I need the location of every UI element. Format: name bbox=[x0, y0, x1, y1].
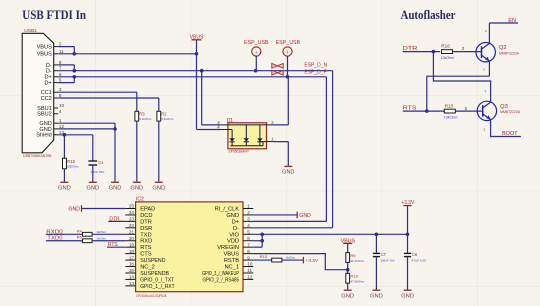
svg-text:10kOhm: 10kOhm bbox=[441, 56, 455, 60]
svg-text:RI_/_CLK: RI_/_CLK bbox=[215, 207, 240, 213]
svg-text:D-: D- bbox=[46, 69, 52, 75]
svg-text:Q3: Q3 bbox=[500, 104, 508, 110]
svg-text:USB7058ASB19B: USB7058ASB19B bbox=[23, 154, 52, 158]
svg-text:5.1kOhm: 5.1kOhm bbox=[139, 117, 152, 121]
svg-text:GND: GND bbox=[299, 213, 311, 219]
svg-text:ESP_D_P: ESP_D_P bbox=[304, 69, 327, 75]
svg-text:10: 10 bbox=[59, 103, 65, 108]
svg-text:19: 19 bbox=[129, 242, 135, 247]
svg-text:GND: GND bbox=[109, 186, 122, 192]
svg-text:Q2: Q2 bbox=[499, 45, 507, 51]
svg-text:TXD0: TXD0 bbox=[47, 236, 63, 242]
svg-text:RSTB: RSTB bbox=[224, 258, 239, 264]
svg-text:25: 25 bbox=[129, 204, 135, 209]
svg-text:1kOhm: 1kOhm bbox=[96, 237, 106, 241]
svg-text:100nF 16V: 100nF 16V bbox=[380, 259, 395, 263]
svg-text:GPIO_2_/_RS485: GPIO_2_/_RS485 bbox=[203, 277, 240, 283]
svg-text:CTS: CTS bbox=[140, 252, 152, 258]
svg-text:RTS: RTS bbox=[140, 245, 151, 251]
svg-text:VBUS: VBUS bbox=[190, 34, 204, 40]
svg-text:24: 24 bbox=[129, 210, 135, 215]
svg-text:R5: R5 bbox=[77, 235, 83, 240]
svg-text:6: 6 bbox=[59, 72, 62, 77]
svg-text:GND: GND bbox=[152, 186, 165, 192]
svg-text:R16: R16 bbox=[441, 43, 450, 48]
svg-text:GND: GND bbox=[86, 186, 99, 192]
svg-text:VBUS: VBUS bbox=[37, 52, 53, 58]
svg-text:VDD: VDD bbox=[227, 239, 239, 245]
svg-text:VBUS: VBUS bbox=[37, 45, 53, 51]
svg-text:7: 7 bbox=[247, 242, 250, 247]
svg-text:SP0503BAHT: SP0503BAHT bbox=[229, 149, 250, 153]
svg-text:SUSPENDB: SUSPENDB bbox=[140, 271, 169, 277]
svg-text:6: 6 bbox=[247, 236, 250, 241]
svg-text:1: 1 bbox=[59, 118, 62, 123]
svg-text:GPIO_1_/_RXT: GPIO_1_/_RXT bbox=[140, 284, 175, 290]
svg-text:15: 15 bbox=[129, 268, 135, 273]
svg-text:13: 13 bbox=[129, 281, 135, 286]
svg-text:4: 4 bbox=[247, 223, 250, 228]
svg-text:580Ohm: 580Ohm bbox=[67, 164, 79, 168]
svg-text:GPIO_0_/_TXT: GPIO_0_/_TXT bbox=[140, 277, 174, 283]
svg-text:+3.3V: +3.3V bbox=[305, 258, 318, 264]
svg-text:12: 12 bbox=[59, 124, 65, 129]
svg-text:+3.3V: +3.3V bbox=[401, 200, 415, 206]
svg-text:GND: GND bbox=[69, 207, 81, 213]
svg-text:11: 11 bbox=[59, 49, 64, 54]
svg-text:22: 22 bbox=[129, 223, 135, 228]
svg-text:9: 9 bbox=[247, 255, 250, 260]
svg-text:2: 2 bbox=[247, 210, 250, 215]
svg-text:5.1kOhm: 5.1kOhm bbox=[161, 117, 174, 121]
svg-text:EPAD: EPAD bbox=[140, 207, 155, 213]
svg-text:GND: GND bbox=[401, 293, 414, 299]
svg-text:D1: D1 bbox=[227, 118, 234, 124]
svg-text:R4: R4 bbox=[77, 228, 83, 233]
svg-text:RXD: RXD bbox=[140, 239, 152, 245]
svg-text:C1: C1 bbox=[98, 160, 104, 165]
svg-text:NC_2: NC_2 bbox=[140, 265, 155, 271]
svg-text:EN: EN bbox=[508, 18, 516, 24]
svg-text:D+: D+ bbox=[44, 81, 51, 87]
svg-text:CC2: CC2 bbox=[41, 96, 52, 102]
svg-text:C6: C6 bbox=[412, 252, 418, 257]
svg-text:R10: R10 bbox=[260, 254, 268, 259]
svg-text:21: 21 bbox=[129, 229, 135, 234]
svg-text:11: 11 bbox=[247, 268, 252, 273]
svg-text:23: 23 bbox=[129, 217, 135, 222]
svg-text:RXD0: RXD0 bbox=[46, 229, 63, 235]
svg-text:14: 14 bbox=[129, 275, 135, 280]
svg-text:D+: D+ bbox=[232, 219, 240, 225]
svg-text:MMBT2222A: MMBT2222A bbox=[500, 110, 521, 114]
svg-text:9: 9 bbox=[59, 93, 62, 98]
svg-text:Autoflasher: Autoflasher bbox=[401, 7, 456, 22]
svg-text:22.1kOhm: 22.1kOhm bbox=[350, 259, 364, 263]
svg-text:VBUS: VBUS bbox=[224, 252, 240, 258]
svg-text:R9: R9 bbox=[350, 253, 356, 258]
svg-text:10: 10 bbox=[247, 262, 253, 267]
svg-text:1kOhm: 1kOhm bbox=[286, 256, 296, 260]
svg-text:1kOhm: 1kOhm bbox=[96, 230, 106, 234]
svg-text:GND: GND bbox=[130, 186, 143, 192]
svg-text:1: 1 bbox=[286, 50, 288, 54]
svg-text:8: 8 bbox=[59, 60, 62, 65]
svg-text:R10: R10 bbox=[445, 103, 454, 108]
svg-text:VREGIN: VREGIN bbox=[217, 245, 239, 251]
svg-text:1: 1 bbox=[247, 204, 250, 209]
svg-text:GND: GND bbox=[370, 293, 383, 299]
svg-text:MMBT2222A: MMBT2222A bbox=[499, 51, 520, 55]
svg-text:SBU2: SBU2 bbox=[37, 112, 52, 118]
svg-text:SUSPEND: SUSPEND bbox=[140, 258, 165, 264]
svg-text:GND: GND bbox=[282, 170, 294, 176]
svg-text:DCD: DCD bbox=[140, 213, 152, 219]
svg-text:GND: GND bbox=[341, 293, 354, 299]
svg-text:Shield: Shield bbox=[36, 133, 52, 139]
svg-text:DTR: DTR bbox=[403, 46, 418, 52]
svg-text:R15: R15 bbox=[67, 159, 75, 164]
svg-text:3: 3 bbox=[59, 87, 62, 92]
svg-text:D-: D- bbox=[233, 226, 239, 232]
svg-text:ESP_USB: ESP_USB bbox=[244, 40, 269, 46]
svg-text:R13: R13 bbox=[350, 274, 358, 279]
svg-text:GND: GND bbox=[226, 213, 239, 219]
svg-text:4: 4 bbox=[59, 109, 62, 114]
svg-text:5: 5 bbox=[247, 229, 250, 234]
svg-text:CP2102N-A02-GQFN28: CP2102N-A02-GQFN28 bbox=[136, 294, 166, 298]
svg-text:IC2: IC2 bbox=[136, 197, 144, 203]
svg-text:7: 7 bbox=[59, 66, 62, 71]
svg-text:12: 12 bbox=[247, 275, 253, 280]
svg-text:47.5kOhm: 47.5kOhm bbox=[350, 280, 364, 284]
svg-text:ESP_D_N: ESP_D_N bbox=[304, 62, 327, 68]
svg-text:BOOT: BOOT bbox=[502, 131, 518, 137]
svg-text:20: 20 bbox=[129, 236, 135, 241]
svg-text:RTS: RTS bbox=[108, 242, 119, 248]
svg-text:DTR: DTR bbox=[109, 216, 120, 222]
svg-text:2: 2 bbox=[59, 42, 62, 47]
svg-text:17: 17 bbox=[129, 255, 135, 260]
svg-text:5: 5 bbox=[59, 78, 62, 83]
svg-text:GPIO_3_/_WAKEUP: GPIO_3_/_WAKEUP bbox=[202, 271, 239, 277]
svg-text:VIO: VIO bbox=[229, 232, 239, 238]
svg-text:10kOhm: 10kOhm bbox=[444, 116, 458, 120]
svg-text:18: 18 bbox=[129, 249, 135, 254]
svg-text:RTS: RTS bbox=[403, 106, 417, 112]
svg-text:USB FTDI In: USB FTDI In bbox=[22, 7, 86, 22]
svg-text:USB1: USB1 bbox=[24, 28, 37, 34]
svg-text:ESP_USB: ESP_USB bbox=[276, 40, 301, 46]
svg-text:1: 1 bbox=[255, 50, 257, 54]
svg-text:3: 3 bbox=[247, 217, 250, 222]
svg-text:C7: C7 bbox=[381, 252, 387, 257]
svg-text:TXD: TXD bbox=[140, 232, 151, 238]
svg-text:4.7uF 6.3V: 4.7uF 6.3V bbox=[411, 259, 426, 263]
svg-text:NC_1: NC_1 bbox=[224, 265, 239, 271]
svg-text:8: 8 bbox=[247, 249, 250, 254]
svg-text:DTR: DTR bbox=[140, 219, 152, 225]
svg-text:GND: GND bbox=[58, 186, 71, 192]
svg-text:16: 16 bbox=[129, 262, 135, 267]
svg-text:DSR: DSR bbox=[140, 226, 152, 232]
